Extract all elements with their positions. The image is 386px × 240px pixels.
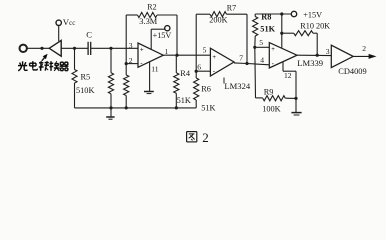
svg-text:3.3M: 3.3M bbox=[139, 17, 157, 26]
svg-text:4: 4 bbox=[260, 55, 264, 64]
node rail-biasA bbox=[109, 106, 112, 109]
op-amp U1B LM324 triangle bbox=[210, 48, 234, 76]
svg-text:6: 6 bbox=[197, 62, 201, 71]
svg-text:-: - bbox=[213, 68, 216, 75]
svg-text:+15V: +15V bbox=[303, 11, 322, 20]
svg-text:5: 5 bbox=[259, 38, 263, 47]
wire supply drop to comparator bbox=[281, 14, 283, 48]
feedback top wire stage2 with resistor R7 bbox=[196, 12, 247, 17]
wire pin5 comparator bbox=[255, 46, 269, 48]
feedback right riser stage2 bbox=[246, 14, 248, 63]
resistor R9 bbox=[256, 96, 297, 101]
svg-text:+: + bbox=[271, 46, 275, 53]
svg-text:3: 3 bbox=[129, 41, 133, 50]
node rail-biasB bbox=[125, 106, 128, 109]
photodetector D1 (light receiver triangle) bbox=[49, 40, 61, 56]
node output stage1 bbox=[175, 54, 178, 57]
comparator U2 LM339 triangle bbox=[269, 43, 297, 68]
node output stage2 bbox=[245, 62, 248, 65]
node R9-pin12 junction bbox=[294, 97, 297, 100]
Vcc terminal bbox=[56, 20, 61, 25]
input terminal J1 bbox=[20, 45, 27, 52]
wire Vcc to photodetector bbox=[58, 26, 60, 42]
node supply branch bbox=[280, 12, 283, 15]
caption 图 bbox=[187, 132, 197, 142]
svg-text:+: + bbox=[140, 46, 144, 53]
wire +15V top right bbox=[255, 13, 291, 15]
node B (bias resistor tap) bbox=[109, 47, 112, 50]
wire stage1 output to stage2 pin5 bbox=[163, 54, 210, 56]
node R10 tap bbox=[280, 32, 283, 35]
feedback top wire with resistor R2 bbox=[126, 12, 177, 17]
svg-text:-: - bbox=[140, 61, 143, 68]
svg-text:R7: R7 bbox=[227, 3, 236, 12]
svg-text:R9: R9 bbox=[264, 87, 274, 96]
label callout arrow for photodetector bbox=[42, 54, 48, 61]
svg-text:C: C bbox=[86, 30, 92, 40]
ground symbol G2 bbox=[291, 113, 301, 115]
wire input to photodetector bbox=[27, 47, 49, 49]
resistor R10 pull-up bbox=[282, 31, 317, 56]
svg-text:12: 12 bbox=[284, 71, 292, 80]
svg-text:R5: R5 bbox=[81, 73, 91, 82]
svg-text:7: 7 bbox=[239, 53, 243, 62]
svg-text:51K: 51K bbox=[177, 96, 191, 105]
svg-text:510K: 510K bbox=[76, 86, 94, 95]
node pin6 junction bbox=[195, 70, 198, 73]
node pin2 junction bbox=[125, 62, 128, 65]
wire comparator output bbox=[297, 54, 331, 56]
svg-text:51K: 51K bbox=[260, 25, 275, 34]
ground symbol G1 bbox=[106, 108, 114, 119]
ground stub op-amp U1A bbox=[144, 62, 154, 94]
wire pin6 stub bbox=[196, 70, 210, 72]
wire +15V to op-amp U1A bbox=[151, 29, 165, 50]
node A (R5 tap) bbox=[73, 47, 76, 50]
feedback right riser bbox=[176, 15, 178, 55]
svg-text:R4: R4 bbox=[180, 69, 191, 78]
wire final output with arrow bbox=[353, 54, 376, 59]
bias resistor (pin3 to rail) bbox=[108, 48, 113, 108]
svg-text:CD4009: CD4009 bbox=[338, 67, 366, 76]
svg-text:+: + bbox=[212, 54, 216, 61]
bias resistor (pin2 to rail) bbox=[124, 64, 129, 108]
resistor R5 bbox=[72, 48, 77, 108]
inverter U3 CD4009 triangle bbox=[331, 45, 353, 67]
svg-text:3: 3 bbox=[326, 47, 330, 56]
op-amp U1A LM324 triangle bbox=[138, 43, 163, 67]
+15V terminal stage1 bbox=[165, 26, 170, 31]
resistor R4 bbox=[174, 55, 179, 108]
capacitor C bbox=[88, 42, 91, 55]
wire pin2 stub bbox=[126, 63, 138, 65]
node input junction bbox=[40, 47, 43, 50]
svg-text:2: 2 bbox=[129, 56, 133, 65]
node output pull-up bbox=[316, 54, 319, 57]
reference divider wire bbox=[254, 47, 257, 98]
svg-text:51K: 51K bbox=[201, 103, 215, 112]
svg-text:+15V: +15V bbox=[153, 31, 172, 40]
svg-text:-: - bbox=[272, 61, 275, 68]
wire C to op-amp pin 3 bbox=[91, 47, 138, 49]
node comparator pin5 bbox=[253, 46, 256, 49]
svg-text:LM339: LM339 bbox=[297, 58, 323, 68]
svg-text:5: 5 bbox=[203, 46, 207, 55]
svg-text:2: 2 bbox=[202, 130, 209, 145]
feedback riser stage2 bbox=[195, 14, 197, 71]
label 光电转换器 (photoelectric converter) bbox=[18, 61, 68, 71]
svg-text:R2: R2 bbox=[147, 3, 156, 12]
wire photodetector output bbox=[61, 47, 87, 49]
stub under U1B bbox=[223, 78, 225, 84]
svg-text:200K: 200K bbox=[209, 15, 227, 24]
ground rail wire bbox=[75, 107, 197, 109]
svg-text:LM324: LM324 bbox=[224, 81, 250, 91]
node rail-R4 bbox=[175, 106, 178, 109]
resistor R6 bbox=[194, 71, 199, 108]
resistor R8 bbox=[253, 14, 258, 47]
svg-text:R6: R6 bbox=[201, 84, 211, 93]
svg-text:11: 11 bbox=[151, 65, 159, 74]
svg-text:2: 2 bbox=[362, 44, 366, 53]
svg-text:R10 20K: R10 20K bbox=[300, 22, 330, 31]
feedback left riser bbox=[125, 15, 127, 64]
wire pin12 to ground bbox=[283, 62, 296, 113]
svg-text:Vcc: Vcc bbox=[63, 17, 76, 27]
svg-text:100K: 100K bbox=[262, 105, 280, 114]
wire stage2 output to comparator pin4 bbox=[234, 63, 269, 65]
+15V terminal right bbox=[291, 11, 296, 16]
